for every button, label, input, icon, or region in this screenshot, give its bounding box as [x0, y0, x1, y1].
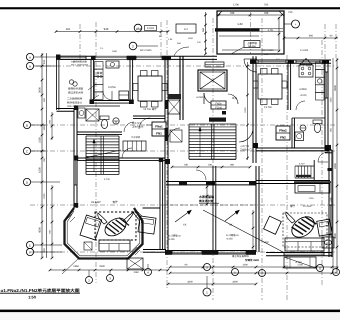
svg-text:3300: 3300: [187, 281, 193, 284]
svg-text:卫生间大样: 卫生间大样: [132, 125, 144, 128]
bottom dim line right: [170, 266, 338, 268]
right inner dim vertical: [252, 210, 254, 250]
living east wall left unit: [159, 161, 161, 250]
svg-text:做法详见大样: 做法详见大样: [68, 90, 84, 94]
svg-text:1500: 1500: [330, 97, 333, 103]
bath bottom wall left unit: [77, 131, 122, 133]
left axis bubble C: [23, 147, 30, 154]
bath top wall left unit: [77, 105, 120, 107]
sofa left unit: [99, 240, 130, 251]
right rug striped oval: [288, 213, 318, 242]
svg-text:FN2: FN2: [280, 136, 286, 140]
grid dash vertical x=287: [286, 55, 288, 300]
grid dash horizontal y=205: [30, 204, 336, 206]
window above elevator: [205, 62, 224, 67]
bath floor drain circle T: [113, 118, 119, 124]
elevator cross: [200, 72, 225, 89]
svg-text:E2003: E2003: [147, 27, 155, 30]
svg-text:700: 700: [264, 4, 269, 7]
svg-text:FN2b: FN2b: [215, 102, 222, 105]
svg-text:Ma Mal: Ma Mal: [248, 45, 256, 48]
core stair up arrow: [199, 128, 201, 157]
svg-text:二次装修: 二次装修: [131, 136, 141, 139]
svg-text:做法详水施: 做法详水施: [198, 199, 213, 203]
bottom center dim line: [168, 283, 256, 285]
canopy outline rect: [217, 11, 284, 54]
right dining chair right: [282, 81, 287, 88]
bay to living connector right: [143, 207, 161, 209]
top wall pier c: [162, 56, 171, 60]
axis bubble bottom e: [259, 270, 266, 277]
canopy slab edge lines right of bar: [260, 28, 284, 30]
entry door arc right: [228, 94, 238, 104]
axis bubble bottom d: [232, 269, 239, 276]
garage top wall pier 1: [179, 181, 187, 185]
svg-text:o1.FNo2./N1.FN2单元底层平面放大图: o1.FNo2./N1.FN2单元底层平面放大图: [1, 288, 80, 293]
right sofa: [285, 238, 324, 251]
hall door arc 2: [139, 118, 150, 129]
svg-text:910: 910: [104, 27, 109, 31]
garage bottom wall: [165, 250, 256, 252]
right kitchen hood symbol: [300, 59, 312, 65]
wall junction pier 4: [74, 203, 78, 208]
svg-text:2100: 2100: [244, 107, 247, 113]
garage top wall pier 3: [249, 181, 256, 185]
wall junction pier 6: [129, 100, 134, 105]
armchair left unit east: [138, 216, 156, 234]
garage bottom pier 2: [202, 250, 218, 255]
svg-text:G: G: [319, 266, 321, 270]
garage inner dim chain: [206, 185, 208, 205]
svg-text:XX: XX: [183, 224, 187, 227]
wall junction pier 1: [56, 55, 60, 60]
entry door arc right unit: [244, 59, 257, 72]
left outer wall lower: [73, 109, 75, 209]
divider wall dark pier upper: [165, 100, 169, 109]
grid dash vertical x=167: [166, 20, 168, 288]
axis bubble bottom center upper: [204, 264, 211, 271]
canopy line below bar: [219, 35, 259, 37]
wall junction pier 7: [159, 158, 164, 163]
axis bubble 2 with leader: [129, 42, 137, 50]
wall junction pier 3: [74, 156, 78, 161]
svg-text:乙级防火门: 乙级防火门: [240, 149, 252, 152]
right kitchen counters: [316, 62, 325, 70]
svg-text:4500: 4500: [39, 227, 42, 233]
left wall jog at y109: [57, 108, 75, 110]
garage arrow right: [225, 211, 238, 221]
bay glazing hatch corner se: [132, 247, 137, 252]
right living cabinet row: [295, 184, 330, 194]
right kitchen door arc: [296, 101, 305, 110]
svg-text:MC-2 1800: MC-2 1800: [262, 49, 274, 52]
canopy corner slash tl: [217, 11, 222, 16]
top wall core segment: [171, 55, 217, 57]
left stair treads: [86, 135, 119, 137]
hall door arc 1: [122, 148, 132, 158]
decorative horn left: [98, 213, 107, 224]
right chair tilted west: [264, 216, 282, 234]
hall wardrobe cells: [123, 141, 146, 151]
bay glazing hatch corner ne: [134, 214, 139, 219]
wall junction pier 5: [90, 100, 95, 105]
svg-text:360: 360: [202, 27, 205, 32]
inner dim chain core upper: [247, 62, 249, 160]
svg-text:客厅: 客厅: [112, 200, 118, 204]
entry door arc left: [204, 93, 215, 104]
canopy mid dashed line: [250, 12, 252, 54]
top wall kitchen window left unit: [95, 55, 127, 57]
kitchen door arc: [103, 91, 112, 100]
bath duct shaft with cross: [86, 109, 99, 121]
svg-text:B: B: [26, 123, 28, 127]
page top border line: [0, 7, 340, 9]
svg-text:A: A: [29, 55, 31, 59]
svg-text:3000: 3000: [39, 87, 42, 93]
dining table left unit: [138, 76, 162, 101]
svg-text:6.57m²: 6.57m²: [108, 86, 116, 89]
axis bubble bottom g: [333, 269, 340, 276]
axis bubble below bay c: [145, 269, 152, 276]
canopy label box: [244, 41, 260, 48]
right bath west wall: [291, 118, 293, 148]
title underline: [0, 292, 80, 294]
svg-text:22.29m²: 22.29m²: [303, 205, 312, 208]
svg-text:21.84m²: 21.84m²: [91, 201, 101, 204]
top wall pier b: [127, 56, 136, 60]
svg-text:910: 910: [43, 59, 46, 64]
svg-text:1736: 1736: [309, 197, 315, 200]
bath washer box: [78, 108, 85, 118]
left stair break diagonal: [84, 150, 121, 158]
svg-text:1700: 1700: [297, 263, 303, 266]
rug striped oval left unit: [102, 214, 130, 239]
svg-text:2400: 2400: [334, 163, 337, 169]
right stair treads: [294, 166, 296, 178]
right living bottom window: [284, 252, 324, 254]
right exterior wall step: [325, 149, 332, 151]
svg-text:xx 2路插 xx: xx 2路插 xx: [168, 234, 182, 238]
right sofa dashed border: [283, 213, 327, 247]
svg-text:4.05m²: 4.05m²: [299, 88, 307, 91]
grid dash vertical x=161: [160, 22, 162, 62]
svg-text:2700: 2700: [43, 193, 46, 199]
right porch rect hatched: [284, 257, 316, 268]
divider wall dark pier lower: [165, 128, 169, 141]
core shaft column left: [179, 56, 181, 120]
right decorative horn: [286, 212, 295, 223]
svg-text:H: H: [335, 270, 337, 274]
svg-text:-0.450: -0.450: [168, 238, 175, 241]
axis bubble right of canopy: [292, 20, 300, 28]
grid dash vertical x=322: [321, 40, 323, 285]
axis bubble bottom center lower: [203, 288, 211, 296]
garage arrow left: [175, 211, 190, 222]
unit divider wall upper: [164, 56, 166, 160]
svg-text:-0.450: -0.450: [226, 238, 233, 241]
svg-text:1:50: 1:50: [28, 295, 36, 300]
grid dash vertical x=96: [95, 22, 97, 283]
top wall pier e: [288, 60, 294, 64]
svg-text:楼梯栏杆详图: 楼梯栏杆详图: [68, 87, 84, 91]
svg-text:900: 900: [66, 28, 71, 31]
svg-text:1500: 1500: [43, 125, 46, 131]
svg-text:±0.000: ±0.000: [196, 96, 204, 99]
svg-text:700: 700: [264, 11, 269, 15]
svg-text:二次装修拆除: 二次装修拆除: [67, 97, 83, 101]
top axis bubble E with tag: [134, 24, 142, 32]
right dim chain inner: [332, 58, 334, 272]
svg-text:A楼梯间采光窗: A楼梯间采光窗: [71, 60, 88, 64]
svg-text:-1.05: -1.05: [267, 29, 273, 32]
bay window octagon wall left: [65, 208, 143, 259]
right living top wall: [256, 180, 330, 182]
canopy leader to bubble: [284, 23, 291, 25]
right wall window upper: [324, 72, 326, 98]
left dim chain inner line: [46, 53, 48, 258]
svg-text:5.7m²: 5.7m²: [299, 163, 305, 166]
right living diagonal leader: [203, 210, 283, 252]
top wall pier f: [322, 60, 329, 64]
garage divider wall: [212, 166, 214, 250]
right bath toilet: [313, 120, 322, 124]
svg-text:FNa1: FNa1: [155, 125, 163, 129]
svg-text:1360: 1360: [73, 265, 79, 268]
bath door arc: [124, 122, 134, 132]
svg-text:砌块墙详设计: 砌块墙详设计: [67, 100, 83, 104]
kitchen sink: [106, 61, 119, 68]
svg-text:700: 700: [230, 11, 235, 15]
core top door arc: [174, 47, 189, 56]
right bath washing machine: [295, 132, 304, 141]
svg-text:1500: 1500: [112, 50, 118, 53]
canopy right inner dim line: [278, 17, 280, 52]
decorative horn right: [123, 212, 134, 223]
right wall window lower: [328, 205, 330, 235]
svg-text:E: E: [29, 243, 31, 247]
bay glazing hatch corner sw: [68, 247, 73, 252]
terrace circle symbol: [69, 80, 73, 84]
svg-text:FNa2: FNa2: [279, 129, 287, 133]
left axis bubble B: [23, 121, 30, 128]
right bath drain circle: [300, 125, 306, 131]
svg-text:A: A: [29, 64, 31, 68]
right stair rails: [295, 165, 314, 167]
svg-text:FCN4: FCN4: [215, 106, 222, 109]
svg-text:1.62: 1.62: [237, 22, 243, 26]
right stair dark strip: [296, 175, 311, 177]
living bottom wall right of bay: [143, 249, 166, 251]
grid dash vertical x=80: [79, 24, 81, 62]
right landing wall stub: [313, 160, 315, 180]
garage bottom window 1: [172, 250, 202, 252]
right unit mid wall: [256, 147, 329, 149]
axis bubble bottom f: [317, 265, 324, 272]
svg-text:xx 2路插 xx: xx 2路插 xx: [226, 233, 240, 237]
hall label box: [211, 101, 226, 109]
top wall dining window left unit: [136, 55, 162, 57]
tag box E2003: [145, 26, 157, 31]
bath toilet: [100, 116, 109, 120]
small rect left of canopy: [176, 24, 196, 33]
dining bottom wall: [133, 115, 165, 117]
left axis bubble D: [23, 178, 30, 185]
wall junction pier 10: [325, 145, 331, 150]
svg-text:玄关: 玄关: [232, 96, 238, 100]
garage top wall pier 2: [206, 181, 215, 185]
annotation leader 1: [88, 84, 96, 90]
core door to left unit: [168, 128, 180, 140]
svg-text:750: 750: [288, 11, 293, 14]
svg-text:1260: 1260: [133, 271, 139, 274]
sofa group dashed border left unit: [95, 212, 136, 240]
top dim line: [56, 31, 168, 33]
left outer wall window lower: [73, 160, 75, 185]
svg-text:楼上阳台投影线: 楼上阳台投影线: [232, 254, 249, 258]
page bottom border line: [0, 310, 340, 313]
leader to FNa1 box: [146, 124, 152, 126]
garage bottom pier 1: [165, 250, 172, 255]
dining chair left: [133, 84, 138, 91]
dining chairs top: [141, 71, 148, 77]
right dining chairs bottom: [261, 99, 268, 105]
grid dash horizontal y=151: [30, 150, 336, 152]
svg-text:1900: 1900: [99, 265, 105, 268]
left axis bubble F: [26, 248, 33, 255]
hall fixture dark dot: [222, 111, 226, 115]
grid dash horizontal y=125: [30, 124, 336, 126]
chaise longue left unit: [80, 215, 102, 240]
right exterior wall lower: [328, 150, 330, 257]
svg-text:入户门详: 入户门详: [240, 145, 250, 148]
top wall right unit: [250, 59, 331, 61]
left wall inner chain lower: [51, 185, 53, 258]
bay glazing hatch corner nw: [67, 214, 72, 219]
annotation leader 2: [90, 95, 99, 101]
grid dash vertical x=336 upper: [335, 24, 337, 58]
kitchen fridge: [119, 91, 129, 100]
bay window inner line left: [67, 211, 140, 256]
svg-text:13.7m² 餐厅: 13.7m² 餐厅: [143, 107, 157, 111]
left axis bubble A lower: [26, 62, 33, 69]
svg-text:-0.020: -0.020: [300, 94, 307, 97]
svg-text:2150: 2150: [39, 137, 42, 143]
grid dash vertical x=213: [212, 18, 214, 300]
core shaft dark pier: [168, 94, 181, 99]
elevator shaft: [198, 70, 227, 91]
svg-text:1700: 1700: [233, 4, 239, 7]
dining chairs bottom: [141, 102, 148, 108]
canopy corner slash tr: [279, 11, 284, 16]
top wall pier d: [250, 60, 256, 64]
left axis bubble E: [26, 241, 33, 248]
entry threshold under canopy: [217, 53, 284, 55]
core stair dark label: [209, 118, 226, 122]
top wall kitchen window right unit: [296, 59, 320, 61]
core stair rails: [188, 124, 190, 159]
ac pad with cross below bay: [127, 258, 143, 269]
svg-text:1400: 1400: [263, 241, 269, 244]
canopy top dim line: [219, 14, 282, 16]
garage top wall: [166, 181, 256, 183]
corridor dim line: [172, 166, 250, 168]
right kitchen stove at top: [299, 65, 313, 77]
svg-text:FN1: FN1: [156, 132, 162, 136]
svg-text:F: F: [29, 250, 31, 254]
dining chair right: [162, 84, 167, 91]
wall junction pier 8: [253, 143, 258, 148]
svg-text:1400: 1400: [242, 263, 248, 266]
top wall window stair light: [60, 55, 86, 57]
wall junction pier 2: [74, 106, 78, 111]
svg-text:3300: 3300: [334, 85, 337, 91]
svg-text:3300: 3300: [232, 281, 238, 284]
side table left unit: [84, 242, 92, 250]
left stair rails: [85, 136, 87, 174]
svg-text:344+3 3X: 344+3 3X: [67, 105, 78, 108]
bay corner leader diagonal: [62, 258, 79, 274]
svg-text:900: 900: [309, 35, 314, 38]
svg-text:MC-1 1500x2003: MC-1 1500x2003: [71, 64, 89, 67]
garage mid dashed line: [165, 204, 256, 206]
core door to right unit: [239, 128, 253, 142]
right kitchen sink in counter: [318, 79, 322, 83]
axis bubble below bay a: [86, 277, 93, 284]
svg-text:上层阳台: 上层阳台: [247, 41, 258, 45]
svg-text:A-2: A-2: [184, 28, 189, 31]
left outer wall upper: [56, 55, 58, 110]
right dining chairs top: [261, 69, 268, 75]
right dim chain line: [336, 58, 338, 272]
core small duct box: [170, 130, 182, 142]
svg-text:1500: 1500: [39, 167, 42, 173]
core duct cross small: [168, 100, 180, 114]
core stair landing line: [189, 158, 236, 160]
corridor door arc: [196, 170, 206, 180]
svg-text:4.7m²: 4.7m²: [104, 178, 110, 181]
core stair treads: [189, 123, 236, 125]
svg-text:13.7m²: 13.7m²: [264, 106, 272, 109]
bottom dim line right second: [170, 272, 338, 274]
canopy label leader: [231, 47, 244, 54]
top wall pier a: [91, 56, 96, 60]
kitchen bottom wall: [91, 100, 133, 102]
grid dash horizontal y=252: [30, 251, 336, 253]
right living bottom wall: [266, 252, 332, 254]
unit divider wall lower: [164, 160, 166, 250]
garage bottom window 2: [218, 250, 246, 252]
canopy left dim chain: [205, 12, 207, 54]
right stair landing door arc: [318, 152, 328, 162]
svg-text:MC-2 1800: MC-2 1800: [140, 49, 152, 52]
right bath top wall: [292, 117, 325, 119]
right bath small appendix: [322, 237, 334, 248]
right landing dark dots: [328, 168, 333, 171]
grid dash vertical x=325 upper: [324, 24, 326, 60]
top wall dining window right unit: [258, 59, 286, 61]
left axis bubble A upper: [26, 53, 33, 60]
grid dash vertical x=262: [261, 18, 263, 300]
label box FNa1 FN1: [152, 122, 166, 136]
right dining table: [258, 74, 282, 99]
svg-text:空调位 2628: 空调位 2628: [245, 258, 259, 262]
left dim chain outer line: [41, 53, 43, 258]
hall-living wall left unit: [77, 157, 165, 159]
left stair arrow: [93, 140, 95, 172]
right armchair east: [317, 219, 332, 236]
wall junction pier 9: [165, 159, 170, 164]
kitchen stove burners: [97, 72, 99, 74]
